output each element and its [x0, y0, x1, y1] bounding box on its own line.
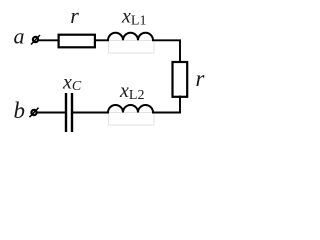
terminal b	[30, 108, 39, 118]
wire a to R1	[38, 39, 60, 41]
svg-text:r: r	[196, 66, 206, 91]
ghost box under inductor L2	[109, 113, 155, 126]
wire R2 to bottom-right corner	[152, 96, 180, 113]
inductor L1	[108, 33, 153, 41]
wire L1 to top-right corner	[152, 40, 180, 63]
svg-text:a: a	[14, 24, 25, 49]
inductor L2	[108, 105, 153, 112]
svg-text:b: b	[14, 98, 26, 123]
wire R1 to L1	[95, 39, 109, 41]
terminal a	[31, 35, 40, 45]
wire C to L2	[73, 112, 109, 114]
svg-text:r: r	[70, 3, 79, 28]
resistor R1	[59, 35, 95, 48]
capacitor C	[66, 93, 72, 132]
wire b to C	[36, 112, 65, 114]
ghost box under inductor L1	[109, 41, 155, 54]
resistor R2 (vertical)	[173, 62, 188, 97]
